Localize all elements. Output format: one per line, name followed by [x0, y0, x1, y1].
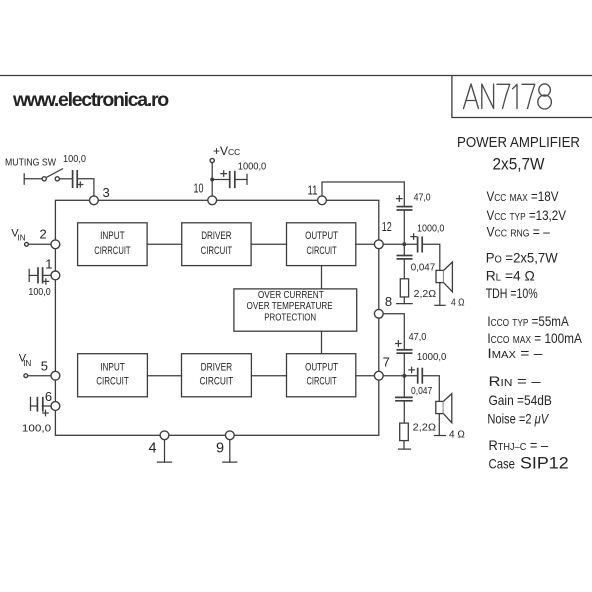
svg-text:100,0: 100,0 [28, 286, 50, 298]
svg-text:100,0: 100,0 [63, 153, 86, 165]
svg-text:4 Ω: 4 Ω [451, 297, 465, 309]
svg-text:1000,0: 1000,0 [238, 161, 267, 173]
svg-text:10: 10 [194, 181, 204, 196]
svg-text:OVER CURRENT: OVER CURRENT [258, 289, 324, 301]
svg-text:5: 5 [41, 358, 48, 373]
svg-text:+VCC: +VCC [213, 144, 240, 158]
wire cap to pin 3 [78, 179, 94, 196]
wire protection to output2 [321, 331, 323, 354]
wire R to ground ch2 [403, 441, 405, 450]
svg-text:4 Ω: 4 Ω [449, 428, 465, 440]
wire input1 to driver1 [147, 243, 182, 245]
wire driver2 to output2 [251, 375, 286, 377]
svg-text:3: 3 [103, 185, 110, 200]
svg-text:INPUT: INPUT [100, 361, 125, 373]
svg-text:SIP12: SIP12 [520, 454, 569, 472]
resistor 2,2 ohm ch1 [400, 279, 408, 297]
svg-text:CIRCUIT: CIRCUIT [200, 376, 234, 388]
pin 7 [374, 371, 383, 380]
pin 9 [225, 431, 234, 440]
svg-text:100,0: 100,0 [22, 423, 51, 435]
svg-text:IN: IN [23, 359, 31, 368]
speaker LS1 [436, 262, 452, 305]
wire pin 12 to C1000 ch1 [383, 243, 417, 245]
wire Vin to pin 5 [28, 375, 51, 377]
wire output2 to pin 7 [356, 375, 375, 377]
wire pin 7 to C1000 ch2 [383, 375, 417, 377]
resistor 2,2 ohm ch2 [400, 423, 409, 441]
wire Vcc to pin 10 [211, 163, 213, 196]
capacitor 100,0 ch2 feedback [31, 397, 52, 416]
capacitor 1000,0 coupling ch1 [411, 234, 422, 253]
wire driver1 to output1 [251, 243, 286, 245]
capacitor 1000,0 supply [221, 171, 247, 188]
wire pin 8 to C47 ch2 [383, 314, 404, 349]
wire C0047 to R ch2 [403, 401, 405, 423]
svg-text:CIRRCUIT: CIRRCUIT [94, 245, 131, 257]
capacitor 0,047 ch1 [397, 256, 413, 259]
svg-text:CIRCUIT: CIRCUIT [307, 245, 337, 257]
svg-text:0,047: 0,047 [411, 385, 432, 397]
ground pin 4 [158, 440, 172, 462]
capacitor 47,0 ch1 [397, 196, 413, 210]
svg-text:0,047: 0,047 [411, 262, 435, 274]
junction Vcc/cap [210, 178, 214, 182]
wire node to C0047 ch1 [403, 244, 405, 255]
svg-text:2x5,7W: 2x5,7W [493, 155, 545, 174]
IC body outline [55, 200, 378, 435]
svg-text:8: 8 [385, 294, 392, 309]
pin 4 [160, 431, 169, 440]
pin 2 [51, 240, 60, 249]
wire Vin to pin 2 [29, 243, 52, 245]
capacitor 100,0 muting [73, 170, 83, 188]
svg-text:2,2Ω: 2,2Ω [413, 421, 436, 433]
capacitor 47,0 ch2 [396, 341, 413, 353]
svg-text:1000,0: 1000,0 [417, 351, 447, 363]
svg-text:OUTPUT: OUTPUT [305, 230, 338, 242]
svg-text:7: 7 [383, 354, 390, 369]
wire C47 to output node ch2 [403, 353, 405, 376]
svg-text:IN: IN [18, 233, 26, 242]
junction output node ch1 [402, 242, 406, 246]
svg-text:RIN = –: RIN = – [489, 373, 541, 389]
svg-text:2: 2 [40, 227, 47, 242]
svg-text:PROTECTION: PROTECTION [264, 312, 316, 324]
muting switch S1 [24, 169, 62, 184]
wire C0047 to R ch1 [403, 259, 405, 279]
ground speaker ch1 [435, 304, 445, 306]
wire junction to C supply [212, 179, 229, 181]
block: input circuit ch1 [78, 223, 148, 266]
svg-text:Case: Case [489, 455, 516, 471]
block: input circuit ch2 [78, 354, 148, 397]
svg-text:11: 11 [308, 183, 318, 198]
svg-text:1000,0: 1000,0 [417, 222, 445, 234]
svg-text:1: 1 [45, 256, 52, 271]
block: driver circuit ch1 [182, 223, 251, 266]
svg-text:MUTING SW: MUTING SW [5, 157, 56, 169]
wire output1 to pin 12 [356, 243, 375, 245]
wire switch to C muting [60, 178, 72, 180]
pin 11 [318, 196, 327, 205]
pin 8 [374, 309, 383, 318]
header rule [0, 75, 452, 77]
svg-text:CIRCUIT: CIRCUIT [307, 376, 337, 388]
IC part number AN7178 (single-stroke CAD lettering) [464, 84, 552, 109]
wire C1000 to speaker ch2 [423, 376, 439, 402]
svg-text:6: 6 [45, 389, 52, 404]
wire pin 11 bootstrap to C47 ch1 [322, 182, 404, 206]
wire output1 to protection [321, 266, 323, 289]
ground pin 9 [223, 440, 237, 462]
svg-text:DRIVER: DRIVER [201, 230, 231, 242]
capacitor 1000,0 coupling ch2 [409, 367, 422, 384]
ground speaker ch2 [435, 435, 446, 437]
svg-text:9: 9 [216, 440, 224, 456]
title box [452, 76, 592, 118]
svg-text:Noise =2 μV: Noise =2 μV [487, 410, 549, 426]
pin 1 [51, 271, 60, 280]
pin 6 [51, 402, 60, 411]
svg-text:TDH =10%: TDH =10% [486, 285, 538, 301]
wire C1000 to speaker ch1 [423, 244, 440, 270]
svg-text:RL =4 Ω: RL =4 Ω [486, 267, 535, 283]
ground R ch1 [397, 303, 412, 305]
block: driver circuit ch2 [182, 354, 252, 397]
block: protection [234, 289, 357, 331]
wire input2 to driver2 [147, 375, 181, 377]
ground R ch2 [399, 448, 411, 450]
svg-text:47,0: 47,0 [414, 192, 431, 204]
block: output circuit ch2 [287, 354, 356, 397]
pin 12 [374, 240, 383, 249]
pin 3 [90, 196, 99, 205]
block: output circuit ch1 [287, 223, 356, 266]
capacitor 0,047 ch2 [395, 397, 413, 400]
wire node to C0047 ch2 [403, 376, 405, 398]
svg-text:2,2Ω: 2,2Ω [414, 288, 437, 300]
svg-text:CIRCUIT: CIRCUIT [201, 245, 233, 257]
svg-text:POWER AMPLIFIER: POWER AMPLIFIER [457, 135, 580, 151]
svg-text:4: 4 [149, 440, 157, 456]
svg-text:OUTPUT: OUTPUT [305, 361, 338, 373]
svg-text:12: 12 [382, 219, 392, 234]
speaker LS2 [436, 394, 452, 436]
pin 5 [51, 371, 60, 380]
svg-text:INPUT: INPUT [100, 230, 125, 242]
pin 10 [208, 196, 217, 205]
svg-text:Gain =54dB: Gain =54dB [489, 392, 552, 408]
svg-text:CIRCUIT: CIRCUIT [96, 376, 129, 388]
wire R to ground ch1 [403, 297, 405, 304]
svg-text:DRIVER: DRIVER [201, 361, 233, 373]
capacitor 100,0 ch1 feedback [29, 267, 51, 284]
svg-text:www.electronica.ro: www.electronica.ro [12, 89, 169, 111]
wire C47 to output node ch1 [403, 210, 405, 244]
junction output node ch2 [402, 374, 406, 378]
svg-text:OVER TEMPERATURE: OVER TEMPERATURE [247, 300, 333, 312]
svg-text:47,0: 47,0 [409, 331, 427, 343]
